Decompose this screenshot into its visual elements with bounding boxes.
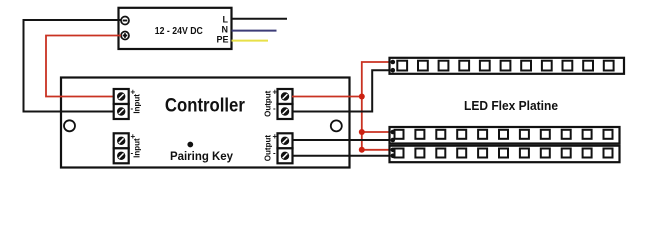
- LED strip 2 chips: [395, 130, 613, 139]
- label - output 1: [273, 104, 276, 113]
- wire: black output 2 terminal 1 to LED strip 2 minus: [292, 139, 390, 141]
- pairing button dot: [187, 142, 193, 148]
- svg-text:LED Flex Platine: LED Flex Platine: [464, 98, 558, 113]
- svg-text:Output: Output: [264, 90, 273, 117]
- svg-text:-: -: [273, 104, 276, 113]
- LED strip 2 solder pad plus: [391, 130, 396, 135]
- label + input 1: [131, 88, 136, 97]
- label Controller: [165, 96, 246, 117]
- wire: red output 1 plus to junction and up to LED strip 1 plus: [292, 62, 390, 97]
- controller U1 body: [61, 78, 350, 168]
- label Output 2 (rotated): [264, 135, 273, 162]
- LED strip 2 body (middle): [390, 127, 620, 144]
- value label 12 - 24V DC: [155, 26, 203, 37]
- junction dot A (red, output bus top): [359, 94, 365, 100]
- wire: mains N (blue): [232, 30, 277, 32]
- wire: mains L (black): [232, 18, 288, 20]
- label + output 2: [273, 132, 278, 141]
- terminal plus symbol on PS1: [121, 32, 129, 40]
- svg-text:Input: Input: [133, 94, 142, 114]
- wire: black from power supply minus, left and down to controller input 1 minus: [24, 20, 122, 112]
- junction dot C (red, strip 3 plus): [359, 147, 365, 153]
- label + input 2: [131, 132, 136, 141]
- terminal block output 2 (screws): [278, 133, 293, 163]
- wire: red from power supply plus, left and down to controller input 1 plus: [46, 36, 121, 97]
- terminal block output 1 (screws): [278, 89, 293, 119]
- LED strip 1 body (top): [390, 58, 625, 74]
- label Output 1 (rotated): [264, 90, 273, 117]
- wire: mains PE (yellow): [232, 40, 269, 42]
- LED strip 2 solder pad minus: [391, 138, 396, 143]
- mounting hole left: [64, 120, 75, 131]
- svg-text:Output: Output: [264, 135, 273, 162]
- LED strip 3 chips: [395, 149, 613, 158]
- label + output 1: [273, 88, 278, 97]
- LED strip 3 body (bottom): [390, 146, 620, 163]
- terminal block input 1 (screws): [114, 89, 129, 119]
- LED strip 3 solder pad plus: [391, 148, 396, 153]
- label LED Flex Platine: [464, 98, 558, 113]
- junction dot B (red, strip 2 plus): [359, 129, 365, 135]
- pin label N: [222, 25, 229, 35]
- svg-text:Controller: Controller: [165, 96, 246, 117]
- terminal minus symbol on PS1: [121, 17, 129, 25]
- svg-text:12 - 24V DC: 12 - 24V DC: [155, 26, 203, 37]
- label - input 2: [131, 148, 134, 157]
- LED strip 1 solder pad minus: [391, 68, 396, 73]
- svg-text:L: L: [223, 14, 229, 24]
- label Input 2 (rotated): [133, 138, 142, 158]
- svg-text:-: -: [273, 148, 276, 157]
- pin label L: [223, 14, 229, 24]
- mounting hole right: [331, 120, 342, 131]
- label Input 1 (rotated): [133, 94, 142, 114]
- svg-text:N: N: [222, 25, 229, 35]
- label - input 1: [131, 104, 134, 113]
- svg-text:+: +: [273, 88, 278, 97]
- LED strip 1 solder pad plus: [391, 60, 396, 65]
- LED strip 3 solder pad minus: [391, 154, 396, 159]
- wire: black output 1 minus up to LED strip 1 minus: [292, 70, 390, 111]
- label - output 2: [273, 148, 276, 157]
- wire: red bus down to LED strips 2 and 3 plus: [362, 97, 390, 150]
- pin label PE: [216, 35, 228, 45]
- power supply PS1 (12 - 24V DC) body: [119, 8, 232, 49]
- svg-text:Pairing Key: Pairing Key: [170, 149, 233, 163]
- wire: black output 2 terminal 2 to LED strip 3 minus: [292, 155, 390, 157]
- svg-text:PE: PE: [216, 35, 228, 45]
- svg-text:Input: Input: [133, 138, 142, 158]
- svg-text:+: +: [273, 132, 278, 141]
- terminal block input 2 (screws): [114, 133, 129, 163]
- label Pairing Key: [170, 149, 233, 163]
- LED strip 1 chips: [397, 61, 613, 71]
